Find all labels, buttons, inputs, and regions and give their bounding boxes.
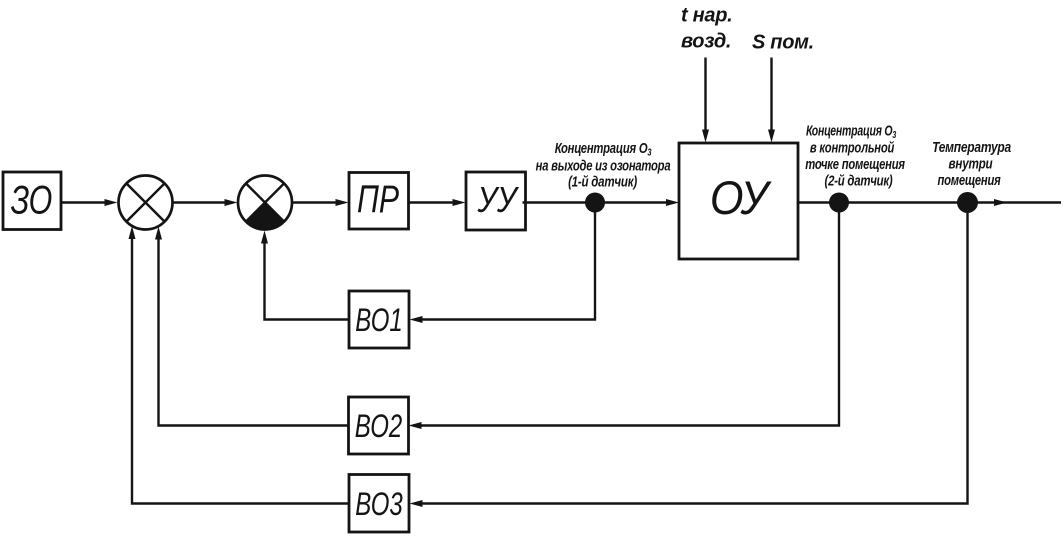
svg-text:УУ: УУ [477,181,520,221]
node 1 (1st sensor tap) [585,193,605,213]
svg-text:внутри: внутри [949,155,993,172]
wire temperature node down and left into ВО3 [410,213,968,507]
svg-text:ВО2: ВО2 [355,408,403,444]
svg-text:возд.: возд. [681,31,731,53]
wire ПР to УУ [409,199,466,206]
wire ВО2 to summing junction 1 bottom (right arrow) [155,227,349,426]
svg-text:t нар.: t нар. [681,5,732,27]
block ВО1 (feedback unit 1) [349,291,409,348]
block УУ (control device) [466,172,526,230]
wire summing junction 1 to summing junction 2 [173,199,238,206]
svg-text:ЗО: ЗО [11,177,53,222]
wire ВО3 to summing junction 1 bottom (left arrow) [129,226,350,504]
wire ОУ output to the right edge [798,199,1061,206]
svg-text:Концентрация О3: Концентрация О3 [806,122,896,141]
wire ЗО to summing junction 1 [62,199,118,206]
svg-text:ОУ: ОУ [710,171,772,224]
svg-text:(1-й датчик): (1-й датчик) [568,173,638,190]
summing junction 1 [119,176,173,230]
node 2 (2nd sensor tap) [829,193,849,213]
svg-text:на выходе из озонатора: на выходе из озонатора [536,157,671,174]
temperature node tap [957,192,978,213]
disturbance arrow 2 into ОУ top [768,58,775,143]
block ВО2 (feedback unit 2) [349,397,409,454]
wire node 2 down and left into ВО2 [409,212,840,429]
wire ВО1 to summing junction 2 bottom [261,231,349,320]
wire summing junction 2 to ПР [292,199,349,206]
block ОУ (controlled object) [679,143,798,259]
block ВО3 (feedback unit 3) [349,475,409,533]
svg-text:S пом.: S пом. [752,32,814,54]
svg-text:(2-й датчик): (2-й датчик) [825,172,894,189]
wire node 1 down and left into ВО1 [410,212,596,323]
wire УУ to ОУ [523,199,680,206]
block ПР (regulator) [349,173,409,230]
disturbance label t нар. возд. [681,5,732,53]
svg-text:помещения: помещения [937,171,1000,188]
label node 2: Концентрация О3 в контрольной точке помещения (2-й датчик) [805,122,905,189]
label temperature: Температура внутри помещения [932,139,1011,189]
disturbance arrow 1 into ОУ top [702,58,709,143]
svg-text:Температура: Температура [932,139,1011,156]
svg-text:ПР: ПР [357,178,400,222]
svg-text:ВО1: ВО1 [355,302,402,338]
svg-text:Концентрация О3: Концентрация О3 [555,139,652,157]
summing junction 2 (with filled lower sector) [238,176,292,230]
svg-text:в контрольной: в контрольной [810,139,894,156]
svg-text:точке помещения: точке помещения [805,155,905,172]
disturbance label S пом. [752,32,814,54]
label node 1: Концентрация О3 на выходе из озонатора (1-й датчик) [536,139,671,189]
svg-text:ВО3: ВО3 [355,485,403,521]
block ЗО (setpoint unit) [3,172,61,230]
